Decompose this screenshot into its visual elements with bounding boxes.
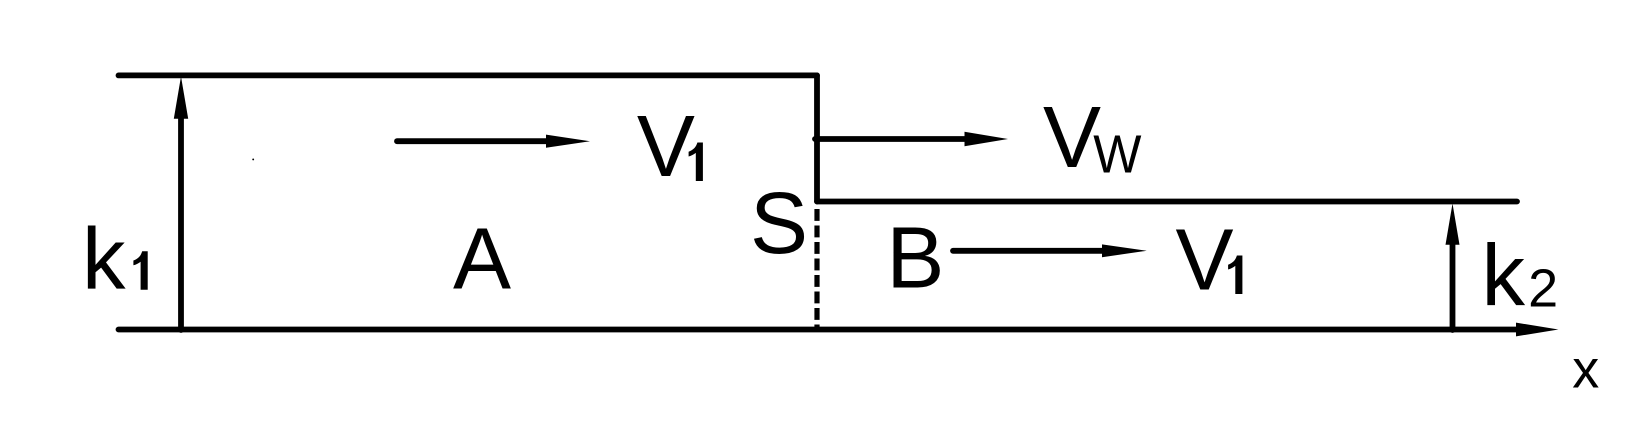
- wire: arrow V1 shaft (region B): [953, 248, 1106, 254]
- wire: arrow V1 shaft (region A): [397, 138, 550, 144]
- svg-text:2: 2: [1528, 258, 1558, 318]
- svg-text:W: W: [1093, 125, 1141, 185]
- svg-text:B: B: [886, 210, 944, 307]
- node: arrowhead of k1 (up): [174, 77, 188, 119]
- svg-text:V: V: [637, 98, 695, 195]
- svg-text:V: V: [1176, 211, 1234, 308]
- svg-text:x: x: [1572, 339, 1599, 399]
- wire: arrow VW shaft: [815, 136, 968, 142]
- wire: arrow k1 shaft: [178, 116, 184, 330]
- svg-text:S: S: [750, 175, 808, 272]
- node: arrowhead of k2 (up): [1446, 204, 1460, 245]
- wire: step vertical at S: [814, 75, 820, 201]
- wire: top surface of region B: [817, 199, 1517, 205]
- node: stray dot: [252, 158, 254, 160]
- wire: dashed interface line below S: [814, 209, 819, 330]
- node: arrowhead of x axis: [1516, 323, 1558, 337]
- svg-text:A: A: [453, 211, 511, 308]
- node: arrowhead of V1 arrow (region A): [546, 135, 590, 148]
- wire: arrow k2 shaft: [1450, 242, 1456, 330]
- svg-text:k: k: [82, 211, 126, 308]
- node: arrowhead of V1 arrow (region B): [1102, 244, 1147, 257]
- svg-text:k: k: [1482, 227, 1526, 324]
- wire: x-axis baseline: [119, 327, 1518, 333]
- node: arrowhead of VW arrow: [965, 132, 1009, 146]
- wire: top surface of region A: [119, 73, 818, 79]
